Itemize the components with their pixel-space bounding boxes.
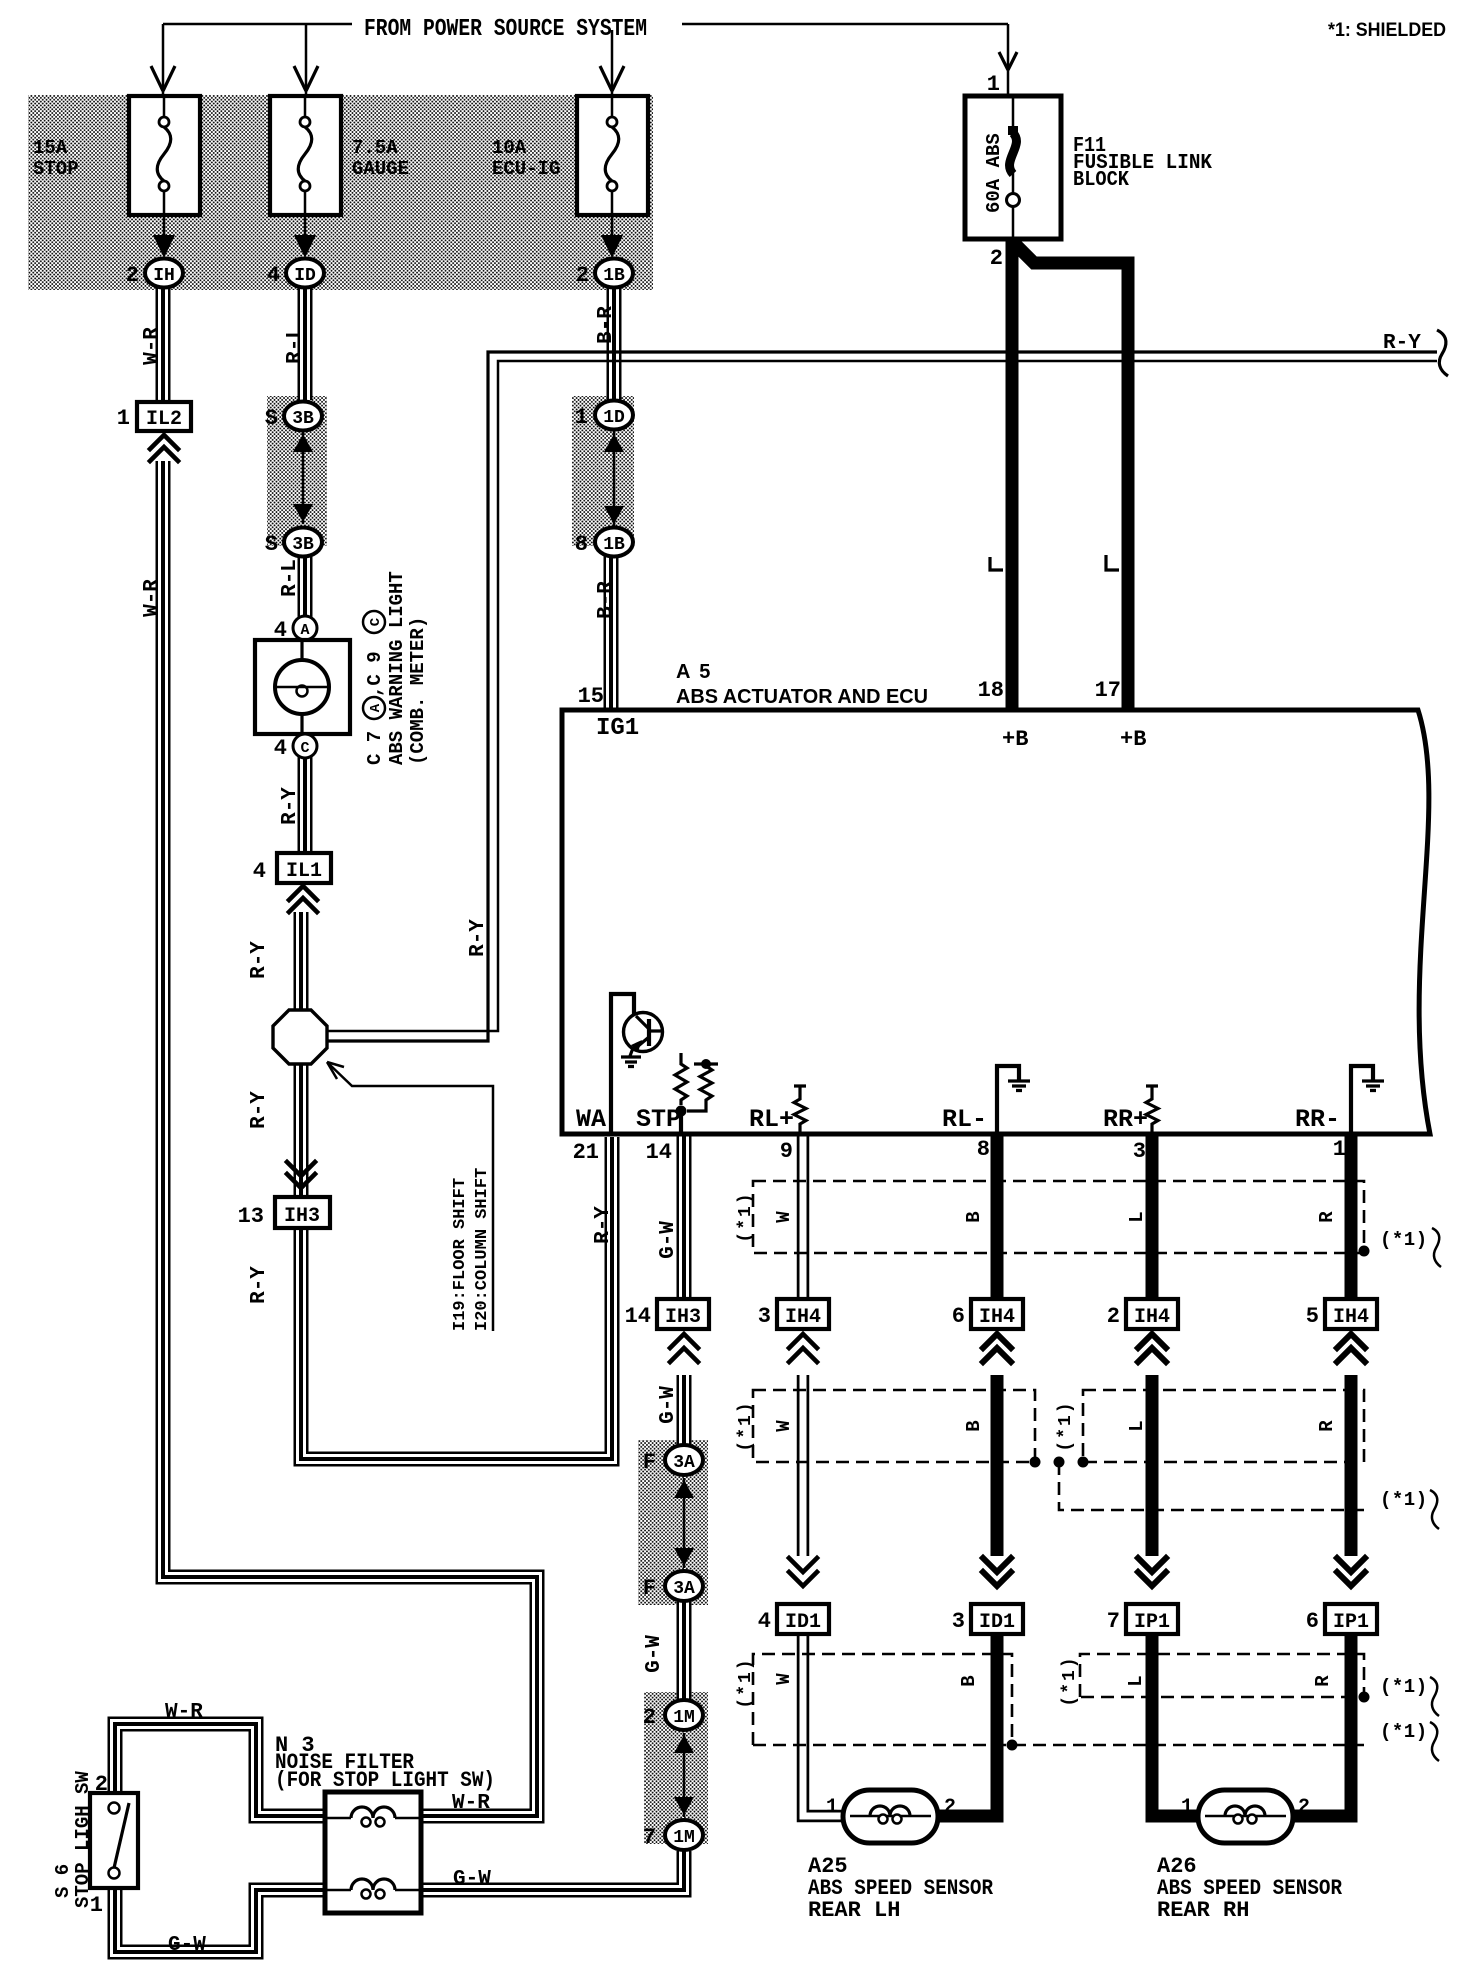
svg-text:R: R <box>1312 1675 1334 1687</box>
svg-text:B-R: B-R <box>595 306 618 344</box>
wire: B-R fuse to connector 1D (crosses R-Y bus) <box>607 288 622 400</box>
ECU internal RL+ resistor <box>794 1086 806 1134</box>
svg-text:(*1): (*1) <box>1056 1400 1076 1451</box>
svg-text:RL-: RL- <box>942 1105 987 1134</box>
shield callout squiggle row2 <box>1430 1490 1439 1529</box>
connector box 4 IL1 <box>277 853 331 912</box>
svg-text:3A: 3A <box>673 1453 695 1473</box>
svg-text:(*1): (*1) <box>736 1657 756 1708</box>
svg-text:(COMB. METER): (COMB. METER) <box>407 617 429 765</box>
svg-text:1: 1 <box>1181 1796 1193 1819</box>
svg-text:IH4: IH4 <box>785 1306 821 1329</box>
svg-text:G-W: G-W <box>657 1221 680 1259</box>
ABS speed sensor A25 rear LH <box>843 1790 938 1843</box>
wire: thick +B branch to ECU pin17 <box>1012 241 1128 710</box>
connector oval 2 IH <box>145 259 183 288</box>
svg-text:R: R <box>1316 1211 1338 1223</box>
svg-text:GAUGE: GAUGE <box>352 158 409 180</box>
svg-text:IL1: IL1 <box>286 860 322 883</box>
svg-text:STOP LIGH SW: STOP LIGH SW <box>72 1771 94 1908</box>
svg-text:W: W <box>773 1420 795 1432</box>
connector box 2 IH4 <box>1126 1299 1178 1329</box>
svg-text:R-Y: R-Y <box>1383 332 1421 355</box>
connector box 3 IH4 <box>777 1299 829 1329</box>
stipple column F-3A connectors <box>638 1440 708 1605</box>
wire: thick L sensor wire ECU pin3 to A26 pin1 <box>1152 1136 1200 1816</box>
wire: R-L connector S-3B to warning light terminal A <box>298 556 313 618</box>
ECU internal STP resistors <box>675 1053 718 1134</box>
link arrow between 1D and 1B connectors <box>604 430 624 526</box>
wire: R-Y double line bus from junction to right edge <box>327 352 1437 1041</box>
svg-text:10A: 10A <box>492 137 527 159</box>
wire: power feed bus line right <box>682 23 1008 26</box>
fuse 7.5A GAUGE <box>270 96 341 258</box>
leader line to I19/I20 note <box>329 1064 493 1331</box>
svg-text:18: 18 <box>978 678 1004 703</box>
svg-text:ABS WARNING LIGHT: ABS WARNING LIGHT <box>386 571 408 765</box>
stop light switch S6 <box>90 1793 138 1888</box>
ECU internal L-mark pin17 <box>1106 555 1119 570</box>
stipple column 1M connectors <box>644 1692 708 1844</box>
svg-text:2: 2 <box>944 1796 956 1819</box>
svg-text:L: L <box>1125 1675 1147 1686</box>
wire: feed drop to 7.5A GAUGE fuse <box>305 24 308 95</box>
wire: R-Y octagon junction down to IH3 <box>294 1064 309 1195</box>
shield dashed box row2 right <box>1083 1390 1364 1462</box>
shield callout squiggle row1 <box>1432 1228 1441 1267</box>
svg-text:C 7: C 7 <box>364 731 386 765</box>
svg-text:14: 14 <box>646 1140 672 1165</box>
link arrow between F-3A connectors <box>674 1478 694 1568</box>
fusible link F11 60A ABS <box>965 96 1061 239</box>
svg-text:(*1): (*1) <box>1380 1229 1428 1251</box>
R-Y bus continuation squiggle <box>1437 330 1448 376</box>
svg-text:G-W: G-W <box>168 1934 206 1957</box>
svg-text:,C 9: ,C 9 <box>364 651 386 697</box>
ECU internal RR+ resistor <box>1146 1086 1158 1134</box>
ECU internal RL- ground <box>997 1066 1030 1134</box>
svg-text:5: 5 <box>1306 1304 1319 1329</box>
connector oval 2 1M <box>665 1700 703 1730</box>
chevron into 6 IP1 (R) <box>1331 1556 1371 1602</box>
svg-text:1B: 1B <box>603 266 625 286</box>
wire: G-W ECU pin14 STP down to F-3A connector <box>677 1136 692 1444</box>
svg-text:ID: ID <box>294 266 316 286</box>
svg-text:REAR RH: REAR RH <box>1157 1898 1249 1923</box>
svg-text:RL+: RL+ <box>749 1105 794 1134</box>
svg-text:2: 2 <box>126 263 139 288</box>
connector oval 7 1M <box>665 1820 703 1850</box>
chevron into 5 IH4 (R) <box>1331 1331 1371 1375</box>
svg-text:IH4: IH4 <box>1134 1306 1170 1329</box>
svg-text:W-R: W-R <box>141 579 164 617</box>
svg-text:RR+: RR+ <box>1103 1105 1148 1134</box>
connector box 14 IH3 <box>657 1299 709 1329</box>
svg-text:R-L: R-L <box>279 559 302 597</box>
circled C of C9 note <box>363 611 385 633</box>
svg-text:I19:FLOOR SHIFT: I19:FLOOR SHIFT <box>451 1178 470 1331</box>
svg-text:W: W <box>773 1211 795 1223</box>
wire: power feed bus line left <box>163 23 352 26</box>
ECU internal RR- ground <box>1351 1066 1384 1134</box>
fuse 10A ECU-IG <box>577 96 648 258</box>
svg-text:3A: 3A <box>673 1579 695 1599</box>
svg-text:IP1: IP1 <box>1333 1611 1369 1634</box>
svg-text:R-L: R-L <box>284 326 307 364</box>
chevron into 6 IH4 (B) <box>977 1331 1017 1375</box>
wire: G-W 7-1M connector down to noise filter <box>423 1851 684 1890</box>
svg-text:IH4: IH4 <box>1333 1306 1369 1329</box>
node: shield junction dots row2 <box>1030 1457 1041 1468</box>
ECU A5 box outline <box>562 710 1430 1134</box>
connector oval 1 1D <box>595 401 633 430</box>
svg-text:S: S <box>265 532 278 557</box>
svg-text:A: A <box>368 703 384 712</box>
svg-text:IG1: IG1 <box>596 715 639 742</box>
wire: thin W sensor wire ECU pin9 to A25 pin1 <box>803 1136 845 1816</box>
ECU internal L-mark pin18 <box>990 557 1003 570</box>
svg-text:*1: SHIELDED: *1: SHIELDED <box>1328 19 1446 41</box>
node: shield junction dot row3 left <box>1007 1740 1018 1751</box>
svg-text:R: R <box>1316 1420 1338 1432</box>
svg-text:W-R: W-R <box>452 1792 490 1815</box>
svg-text:W-R: W-R <box>165 1701 203 1724</box>
svg-text:BLOCK: BLOCK <box>1073 169 1129 192</box>
svg-text:13: 13 <box>238 1204 264 1229</box>
svg-text:9: 9 <box>780 1139 793 1164</box>
svg-text:4: 4 <box>253 859 266 884</box>
shield dashed box row3 right <box>1080 1654 1364 1697</box>
svg-text:3B: 3B <box>292 535 314 555</box>
wire: R-L fuse GAUGE to connector S-3B <box>298 288 313 400</box>
svg-text:ID1: ID1 <box>785 1611 821 1634</box>
svg-text:(*1): (*1) <box>1380 1721 1428 1743</box>
shield dashed box row2 left <box>753 1390 1035 1462</box>
connector oval F 3A lower <box>665 1571 703 1601</box>
svg-text:21: 21 <box>573 1140 599 1165</box>
svg-text:8: 8 <box>977 1137 990 1162</box>
link arrow between 1M connectors <box>674 1733 694 1817</box>
svg-text:R-Y: R-Y <box>592 1206 615 1244</box>
svg-text:B: B <box>963 1420 985 1431</box>
connector box 6 IH4 <box>971 1299 1023 1329</box>
connector box 6 IP1 <box>1325 1604 1377 1634</box>
svg-text:2: 2 <box>1107 1304 1120 1329</box>
connector oval 8 1B <box>595 528 633 557</box>
svg-text:STP: STP <box>636 1105 681 1134</box>
svg-text:ECU-IG: ECU-IG <box>492 158 560 180</box>
svg-text:ABS ACTUATOR AND ECU: ABS ACTUATOR AND ECU <box>676 686 928 708</box>
chevron arrow into IH3 <box>287 1162 315 1188</box>
svg-text:7: 7 <box>643 1825 656 1850</box>
svg-text:2: 2 <box>576 263 589 288</box>
svg-text:(*1): (*1) <box>1380 1489 1428 1511</box>
svg-text:1M: 1M <box>673 1828 695 1848</box>
svg-text:I20:COLUMN SHIFT: I20:COLUMN SHIFT <box>473 1168 492 1331</box>
svg-text:6: 6 <box>1306 1609 1319 1634</box>
svg-text:G-W: G-W <box>643 1635 666 1673</box>
svg-text:A 5: A 5 <box>676 661 712 683</box>
node: shield junction dot row3 right <box>1359 1692 1370 1703</box>
chevron into 2 IH4 (L) <box>1132 1331 1172 1375</box>
svg-text:R-Y: R-Y <box>248 1091 271 1129</box>
wire: W-R fuse STOP to connector IL2 <box>156 288 171 402</box>
svg-text:FROM POWER SOURCE SYSTEM: FROM POWER SOURCE SYSTEM <box>364 16 647 43</box>
svg-text:1D: 1D <box>603 408 625 428</box>
svg-text:IH4: IH4 <box>979 1306 1015 1329</box>
svg-text:R-Y: R-Y <box>248 1266 271 1304</box>
svg-text:B-R: B-R <box>595 581 618 619</box>
wire: W-R stop light switch pin2 to noise filter <box>115 1724 327 1816</box>
wire: feed drop to F11 fusible link <box>1007 24 1010 96</box>
svg-text:W: W <box>773 1673 795 1685</box>
svg-text:B: B <box>958 1675 980 1686</box>
wire: long W-R from IL2 down to noise filter <box>163 461 537 1816</box>
connector oval F 3A upper <box>665 1445 703 1475</box>
svg-text:1B: 1B <box>603 535 625 555</box>
svg-text:4: 4 <box>274 736 287 761</box>
svg-text:2: 2 <box>95 1772 108 1797</box>
shield dashed box row3 left <box>753 1654 1364 1745</box>
warning light terminal C <box>293 734 317 758</box>
svg-text:60A ABS: 60A ABS <box>983 133 1005 213</box>
shield dashed box row1 under ECU <box>753 1181 1364 1253</box>
connector box 1 IL2 <box>137 402 191 461</box>
svg-text:L: L <box>1126 1420 1148 1431</box>
wire: thick B sensor wire ECU pin8 to A25 pin2 <box>936 1136 997 1816</box>
svg-text:L: L <box>1126 1211 1148 1222</box>
chevron into 3 ID1 (B) <box>977 1556 1017 1602</box>
svg-text:F: F <box>643 1576 656 1601</box>
svg-text:W-R: W-R <box>141 327 164 365</box>
svg-text:B: B <box>963 1211 985 1222</box>
wire: shield drain dashed link row2 <box>1059 1462 1367 1510</box>
stipple column 1D-1B connectors <box>572 396 634 546</box>
ABS warning light bulb (comb. meter) <box>255 640 350 734</box>
svg-text:A: A <box>300 622 309 639</box>
svg-text:R-Y: R-Y <box>467 919 490 957</box>
svg-text:R-Y: R-Y <box>279 787 302 825</box>
wire: R-Y warning light terminal C to IL1 <box>298 756 313 853</box>
connector box 13 IH3 <box>275 1197 330 1228</box>
svg-text:3: 3 <box>758 1304 771 1329</box>
svg-text:(*1): (*1) <box>736 1400 756 1451</box>
svg-text:F: F <box>643 1450 656 1475</box>
wire: R-Y IH3 to ECU pin21 WA <box>301 1137 612 1459</box>
connector oval S 3B upper <box>284 402 322 431</box>
wire: thick R sensor wire ECU pin1 to A26 pin2 <box>1291 1136 1351 1816</box>
chevron into 7 IP1 (L) <box>1132 1556 1172 1602</box>
stipple column S-3B connectors <box>267 396 327 546</box>
wire: B-R connector 1B to ECU pin15 IG1 <box>604 556 619 708</box>
svg-text:IH: IH <box>153 266 175 286</box>
svg-text:4: 4 <box>758 1609 771 1634</box>
svg-text:1: 1 <box>987 72 1000 97</box>
connector box 7 IP1 <box>1126 1604 1178 1634</box>
wire: G-W stop light switch pin1 to noise filter <box>115 1886 327 1952</box>
wire: feed drop to 10A ECU-IG fuse <box>611 30 614 95</box>
connector box 4 ID1 <box>777 1604 829 1634</box>
svg-text:3: 3 <box>952 1609 965 1634</box>
svg-text:+B: +B <box>1002 727 1028 752</box>
octagon junction node <box>273 1010 327 1064</box>
svg-text:IH3: IH3 <box>284 1205 320 1228</box>
svg-text:1M: 1M <box>673 1708 695 1728</box>
svg-text:4: 4 <box>274 618 287 643</box>
svg-text:2: 2 <box>990 246 1003 271</box>
svg-text:8: 8 <box>575 532 588 557</box>
fuse 15A STOP <box>129 96 200 258</box>
svg-text:7.5A: 7.5A <box>352 137 398 159</box>
svg-text:REAR LH: REAR LH <box>808 1898 900 1923</box>
wire: R-Y IL1 to octagon junction <box>294 912 309 1012</box>
svg-text:2: 2 <box>643 1705 656 1730</box>
connector oval 2 1B <box>595 259 633 288</box>
svg-text:1: 1 <box>1333 1137 1346 1162</box>
svg-text:1: 1 <box>575 405 588 430</box>
wire: G-W between F-3A and 2-1M connector <box>677 1602 692 1700</box>
svg-text:G-W: G-W <box>657 1386 680 1424</box>
wire: thick +B wire F11 pin2 to ECU pin18 <box>1006 237 1019 710</box>
warning light terminal A <box>293 616 317 640</box>
svg-text:3: 3 <box>1133 1139 1146 1164</box>
shield callout squiggle row3 upper <box>1430 1677 1439 1716</box>
svg-text:WA: WA <box>576 1105 606 1134</box>
connector box 5 IH4 <box>1325 1299 1377 1329</box>
svg-text:15A: 15A <box>33 137 68 159</box>
svg-text:1: 1 <box>117 406 130 431</box>
svg-text:6: 6 <box>952 1304 965 1329</box>
svg-text:R-Y: R-Y <box>248 941 271 979</box>
shield callout squiggle row3 lower <box>1430 1722 1439 1761</box>
svg-text:17: 17 <box>1095 678 1121 703</box>
svg-text:S 6: S 6 <box>52 1864 74 1898</box>
svg-text:3B: 3B <box>292 409 314 429</box>
svg-text:C: C <box>368 617 384 626</box>
svg-text:1: 1 <box>826 1796 838 1819</box>
svg-text:+B: +B <box>1120 727 1146 752</box>
svg-text:(FOR STOP LIGHT SW): (FOR STOP LIGHT SW) <box>275 1768 495 1793</box>
svg-text:2: 2 <box>1298 1796 1310 1819</box>
node: shield junction dot row1 <box>1359 1246 1370 1257</box>
ECU internal WA transistor <box>611 994 663 1134</box>
svg-text:IP1: IP1 <box>1134 1611 1170 1634</box>
wire: feed drop to 15A STOP fuse <box>162 24 165 95</box>
connector oval 4 ID <box>286 259 324 288</box>
chevron into 3 IH4 (W) <box>783 1331 823 1375</box>
svg-text:(*1): (*1) <box>736 1191 756 1242</box>
svg-text:4: 4 <box>267 263 280 288</box>
svg-text:C: C <box>300 740 309 757</box>
ABS speed sensor A26 rear RH <box>1198 1790 1293 1843</box>
chevron into 14 IH3 (G-W) <box>664 1331 704 1375</box>
svg-text:IH3: IH3 <box>665 1306 701 1329</box>
stipple band around fuses <box>28 95 653 290</box>
svg-text:S: S <box>265 406 278 431</box>
svg-text:G-W: G-W <box>453 1868 491 1891</box>
chevron into 4 ID1 (W) <box>783 1556 823 1602</box>
link arrow between S-3B connectors <box>293 432 313 524</box>
noise filter N3 box <box>325 1792 421 1913</box>
svg-text:IL2: IL2 <box>146 408 182 431</box>
svg-text:ID1: ID1 <box>979 1611 1015 1634</box>
svg-text:(*1): (*1) <box>1060 1655 1080 1706</box>
connector oval S 3B lower <box>284 528 322 557</box>
svg-text:15: 15 <box>578 684 604 709</box>
svg-text:(*1): (*1) <box>1380 1676 1428 1698</box>
circled A of C7 note <box>363 697 385 719</box>
svg-text:RR-: RR- <box>1295 1105 1340 1134</box>
connector box 3 ID1 <box>971 1604 1023 1634</box>
svg-text:14: 14 <box>625 1304 651 1329</box>
svg-text:STOP: STOP <box>33 158 79 180</box>
svg-text:7: 7 <box>1107 1609 1120 1634</box>
